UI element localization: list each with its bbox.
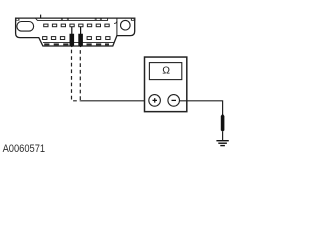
connector right ear / body divider — [116, 18, 118, 35]
terminal - (circle) — [168, 95, 180, 107]
bottom pin row slots — [43, 37, 110, 40]
dashed lead from probe 2 — [79, 50, 81, 100]
terminal + (circle) — [149, 95, 161, 107]
wire to ohmmeter positive terminal — [80, 100, 149, 102]
mounting hole right (round) — [121, 20, 131, 30]
wire probe to ground — [222, 132, 224, 140]
ohmmeter display window — [149, 63, 181, 80]
minus sign — [172, 99, 177, 101]
connector right ear inner step — [114, 21, 117, 23]
top pin row slots — [44, 24, 110, 27]
connector top edge key tab — [40, 15, 42, 19]
top edge detail ticks — [61, 18, 102, 20]
connector pin-field recess top line — [35, 18, 107, 20]
connector J1 outline — [16, 18, 135, 46]
ground symbol — [216, 141, 228, 146]
ground probe (filled) — [221, 114, 225, 132]
connector lip divider line — [43, 41, 114, 43]
probe lead pin 5 (thin) — [80, 27, 82, 34]
probe lead pin 4 (thin) — [71, 27, 73, 34]
svg-text:Ω: Ω — [162, 66, 170, 77]
wire from negative terminal to ground drop — [180, 101, 223, 115]
mounting hole left (oval) — [17, 22, 34, 32]
test probe 1 (filled) — [70, 34, 75, 47]
ohmmeter body — [145, 57, 187, 112]
dashed lead from probe 1 — [72, 50, 81, 101]
plus sign — [153, 98, 158, 103]
lip tick marks — [44, 43, 109, 45]
svg-text:A0060571: A0060571 — [3, 143, 46, 155]
test probe 2 (filled) — [78, 34, 83, 47]
connector top-left corner notch — [15, 18, 19, 21]
connector top-right corner notch — [131, 18, 135, 21]
